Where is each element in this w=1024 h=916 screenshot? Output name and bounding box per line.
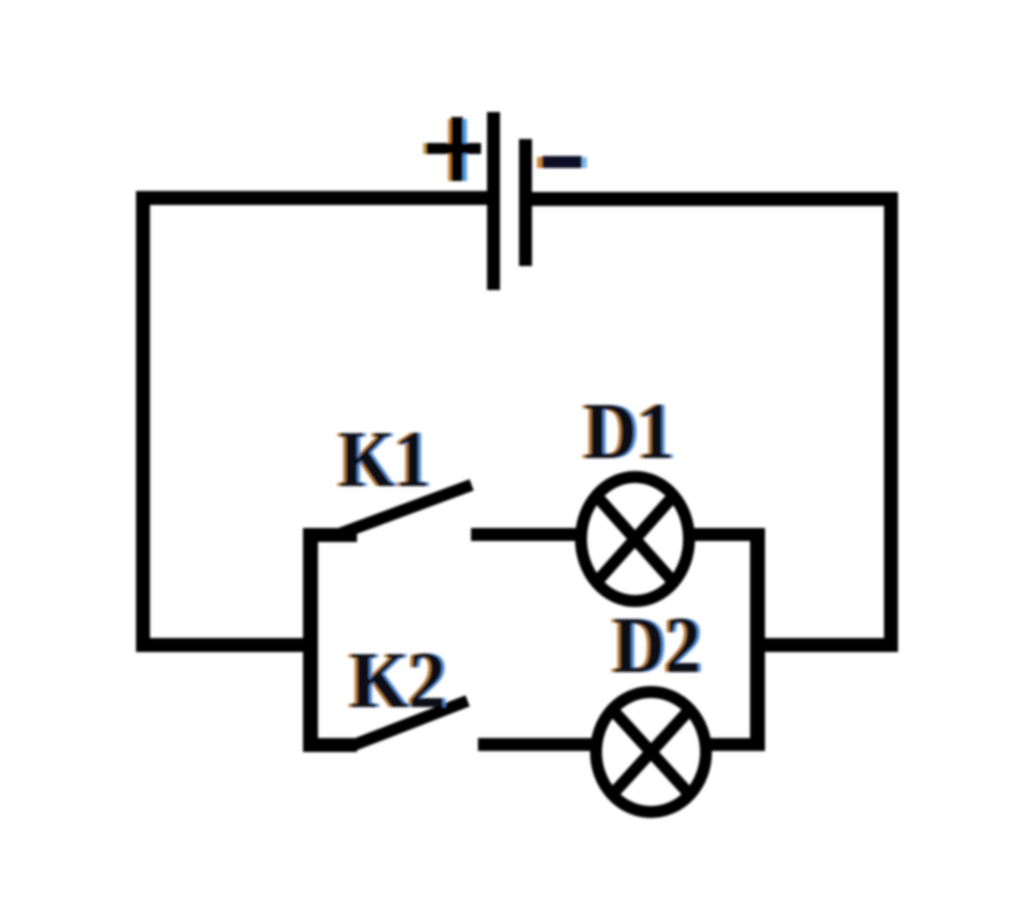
battery B1: negative plate (short) — [519, 139, 532, 266]
battery polarity label: plus sign — [423, 117, 481, 181]
wire: bottom horizontal, right segment — [750, 638, 898, 652]
switch K1: blade (open) — [342, 487, 466, 533]
wire: bottom horizontal, left segment — [136, 638, 318, 652]
wire: K2 branch left contact stub — [303, 738, 357, 752]
lamp D1: cross stroke NE-SW — [594, 493, 676, 585]
wire: D1 to right junction bar — [693, 528, 755, 541]
lamp D2: cross stroke NE-SW — [610, 707, 692, 797]
label D1 — [581, 386, 677, 476]
svg-text:D1: D1 — [584, 386, 674, 476]
wire: right vertical side of outer loop — [884, 192, 898, 652]
battery B1: positive plate (long) — [487, 112, 500, 290]
label D2 — [610, 600, 704, 690]
wire: left vertical side of outer loop — [136, 191, 150, 652]
node: right junction bar of parallel branches — [750, 528, 765, 751]
label K1 — [336, 414, 433, 504]
battery polarity label: minus sign — [537, 156, 587, 168]
lamp D1: circle — [581, 477, 689, 601]
lamp D1: cross stroke NW-SE — [594, 493, 676, 585]
wire: top horizontal, left segment to battery positive plate — [136, 191, 487, 205]
switch K2: blade (open) — [359, 703, 462, 743]
wire: K2 branch from switch to lamp D2 — [478, 738, 592, 751]
wire: top horizontal, right segment from battery negative plate — [532, 192, 898, 206]
wire: K1 branch from switch to lamp D1 — [471, 528, 577, 541]
wire: K1 branch left contact stub — [303, 528, 357, 542]
lamp D2: circle — [596, 692, 706, 812]
wire: D2 to right junction bar — [710, 738, 755, 751]
label K2 — [347, 635, 449, 725]
node: left junction bar of parallel branches — [303, 528, 318, 752]
svg-text:D2: D2 — [613, 600, 701, 690]
svg-text:K1: K1 — [339, 414, 430, 504]
lamp D2: cross stroke NW-SE — [610, 707, 692, 797]
svg-text:K2: K2 — [350, 635, 446, 725]
